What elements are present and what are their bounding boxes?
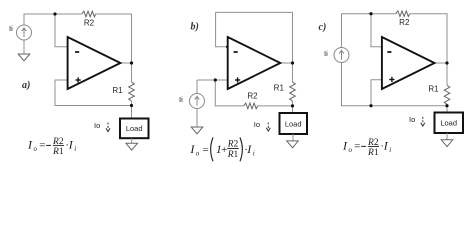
- svg-text:+: +: [220, 144, 227, 156]
- svg-text:R2: R2: [84, 19, 95, 28]
- svg-text:i: i: [253, 150, 255, 158]
- svg-text:R1: R1: [274, 84, 285, 93]
- svg-text:R2: R2: [399, 18, 410, 27]
- svg-text:R1: R1: [227, 150, 239, 160]
- svg-text:=: =: [202, 144, 209, 156]
- svg-text:i: i: [74, 145, 76, 153]
- svg-text:Ii: Ii: [179, 95, 183, 104]
- svg-text:o: o: [349, 146, 353, 154]
- svg-text:R1: R1: [112, 86, 123, 95]
- svg-text:i: i: [389, 146, 391, 154]
- svg-text:a): a): [22, 80, 30, 91]
- svg-text:Io: Io: [94, 121, 100, 130]
- svg-text:I: I: [189, 142, 195, 156]
- svg-text:I: I: [383, 139, 389, 153]
- svg-text:=: =: [39, 140, 46, 152]
- svg-text:I: I: [68, 138, 74, 152]
- svg-text:R1: R1: [52, 147, 64, 157]
- svg-text:Load: Load: [440, 119, 457, 128]
- svg-text:b): b): [191, 22, 199, 33]
- svg-text:I: I: [246, 142, 252, 156]
- svg-text:Load: Load: [285, 119, 302, 128]
- svg-text:I: I: [27, 138, 33, 152]
- svg-text:R1: R1: [428, 85, 439, 94]
- svg-text:=: =: [354, 141, 361, 153]
- svg-text:I: I: [342, 139, 348, 153]
- svg-text:R1: R1: [367, 148, 379, 158]
- svg-text:o: o: [196, 150, 200, 158]
- svg-text:R2: R2: [227, 139, 239, 149]
- svg-text:o: o: [34, 145, 38, 153]
- svg-text:c): c): [319, 22, 327, 33]
- svg-text:Io: Io: [409, 115, 415, 124]
- svg-text:Ii: Ii: [324, 49, 328, 58]
- svg-text:Ii: Ii: [9, 24, 13, 33]
- svg-text:R2: R2: [247, 92, 258, 101]
- svg-text:Io: Io: [254, 120, 260, 129]
- svg-text:Load: Load: [126, 124, 143, 133]
